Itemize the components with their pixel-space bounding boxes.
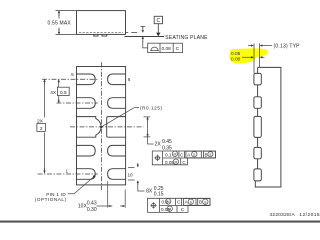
side view lead 5 [254, 169, 261, 181]
position symbol [150, 202, 156, 208]
front view hidden lead line [79, 32, 123, 34]
dimension 2X 0.45/0.35 [144, 117, 154, 144]
pad R1 [108, 74, 126, 85]
position symbol [154, 155, 160, 161]
svg-text:M: M [167, 200, 170, 204]
dimension 0.55 MAX extension lines [56, 11, 77, 35]
svg-text:4220328/A: 4220328/A [270, 212, 296, 218]
dimension 0.05/0.00 [242, 56, 265, 58]
svg-text:0.1: 0.1 [165, 152, 172, 157]
svg-text:B: B [204, 152, 207, 157]
svg-text:6: 6 [128, 77, 131, 82]
svg-text:12/2015: 12/2015 [299, 212, 320, 218]
row1 centerline [42, 78, 98, 80]
pad R5 [108, 169, 126, 180]
pad R2 [108, 98, 126, 109]
svg-text:C: C [181, 207, 185, 212]
svg-text:5: 5 [71, 72, 74, 77]
svg-text:2: 2 [40, 126, 43, 132]
svg-text:M: M [168, 207, 171, 211]
svg-text:0.08: 0.08 [162, 46, 172, 52]
side view body outline [255, 67, 281, 187]
row2 centerline [57, 102, 98, 104]
dimension 4X 0.5 (pitch) [58, 80, 60, 104]
svg-text:0.30: 0.30 [87, 207, 97, 213]
side view lead 2 [254, 97, 261, 109]
svg-text:0.35: 0.35 [162, 145, 172, 151]
svg-text:(OPTIONAL): (OPTIONAL) [35, 197, 67, 202]
seating plane dashed line [125, 32, 137, 34]
pad L2 [77, 98, 96, 109]
svg-text:B: B [199, 200, 202, 205]
svg-text:8X: 8X [146, 188, 153, 194]
front view lead tab right [102, 34, 107, 36]
dimension 8X 0.25/0.15 [128, 163, 145, 191]
tolerance frame 2 [148, 198, 211, 212]
datum triangle [156, 33, 160, 37]
svg-text:C: C [180, 152, 184, 157]
pad L1 [77, 74, 96, 85]
side view inter-lead edge [257, 67, 259, 168]
svg-text:0.05: 0.05 [231, 51, 241, 57]
svg-text:A: A [187, 152, 191, 157]
vertical centerline [100, 62, 102, 190]
flatness frame 0.08 C [148, 43, 183, 52]
svg-text:(0.13) TYP: (0.13) TYP [274, 44, 301, 50]
plan body [77, 67, 126, 185]
pad L5 [77, 169, 96, 180]
extension lines for lead dims [254, 44, 259, 74]
svg-text:C: C [177, 200, 181, 205]
datum C box [154, 16, 162, 32]
front view body [77, 11, 126, 35]
svg-text:C: C [156, 18, 160, 24]
svg-text:0.55 MAX: 0.55 MAX [48, 21, 72, 27]
svg-text:10: 10 [127, 173, 133, 178]
svg-text:M: M [173, 153, 176, 157]
plan view [38, 62, 144, 190]
svg-text:0.45: 0.45 [162, 139, 172, 145]
seating plane gap dimension upper arrow [141, 27, 146, 29]
dimension 10X 0.43/0.30 [97, 181, 126, 207]
svg-text:0.43: 0.43 [87, 200, 97, 206]
svg-text:0.00: 0.00 [231, 57, 241, 63]
svg-text:2X: 2X [155, 142, 162, 148]
svg-text:SEATING PLANE: SEATING PLANE [165, 35, 208, 41]
footer border line [0, 221, 320, 223]
svg-text:C: C [176, 46, 180, 52]
svg-text:1: 1 [66, 169, 69, 174]
svg-text:(R0.125): (R0.125) [140, 106, 162, 111]
side view (right) [254, 44, 281, 188]
tolerance frame 1 [152, 151, 215, 165]
dimension 0.55 MAX line [58, 11, 60, 16]
row5 centerline [38, 173, 98, 175]
svg-text:C: C [182, 160, 186, 165]
pad L3 (fused, pointed) [77, 117, 102, 138]
dimension (0.13) TYP [248, 45, 272, 47]
front view lead tab left [94, 34, 98, 36]
pad L4 [77, 145, 96, 156]
highlight (yellow) [229, 48, 268, 63]
label 0.55 MAX [47, 20, 72, 26]
svg-text:0.15: 0.15 [154, 192, 164, 198]
svg-text:M: M [174, 160, 177, 164]
seating plane gap dimension lower arrow + leader to frame [142, 37, 144, 42]
pad R3 (wide) [107, 117, 126, 138]
row3 centerline [70, 126, 144, 128]
side view lead 1 [254, 73, 261, 85]
dimension 2X [2] [44, 80, 46, 174]
side view lead 4 [254, 147, 261, 158]
svg-text:4X: 4X [50, 90, 57, 96]
pad R4 [108, 145, 126, 156]
seating plane line [125, 36, 165, 38]
side view lead 3 (wide) [254, 116, 261, 137]
svg-text:0.5: 0.5 [60, 90, 67, 96]
